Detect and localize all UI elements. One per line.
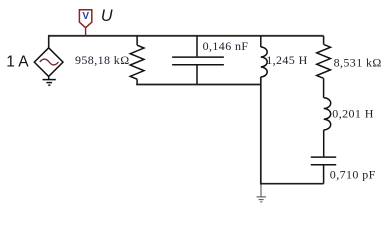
wire left branch vertical down — [260, 77, 262, 184]
ground bottom right — [257, 185, 266, 202]
svg-text:958,18 kΩ: 958,18 kΩ — [75, 53, 130, 67]
ground below source — [43, 76, 56, 85]
wire source top stub — [48, 36, 50, 49]
svg-text:1 A: 1 A — [6, 53, 29, 70]
svg-text:V: V — [82, 11, 89, 22]
capacitor C1 — [172, 36, 224, 85]
wire middle bottom horizontal — [136, 84, 261, 86]
inductor L1 — [261, 36, 267, 77]
resistor R2 — [317, 44, 331, 97]
inductor L2 — [324, 98, 331, 157]
svg-text:1,245 H: 1,245 H — [266, 53, 307, 67]
wire right branch top stub — [323, 36, 325, 45]
svg-text:0,710 pF: 0,710 pF — [330, 167, 376, 181]
current source I1 — [34, 48, 63, 77]
svg-text:0,201 H: 0,201 H — [332, 107, 373, 121]
svg-text:0,146 nF: 0,146 nF — [203, 39, 249, 53]
capacitor C2 — [311, 157, 336, 184]
voltmeter probe — [79, 10, 91, 36]
svg-text:8,531 kΩ: 8,531 kΩ — [334, 55, 382, 69]
wire bottom right horizontal — [260, 183, 324, 185]
wire top horizontal — [48, 35, 324, 37]
resistor R1 — [130, 36, 144, 85]
svg-text:U: U — [101, 7, 113, 25]
